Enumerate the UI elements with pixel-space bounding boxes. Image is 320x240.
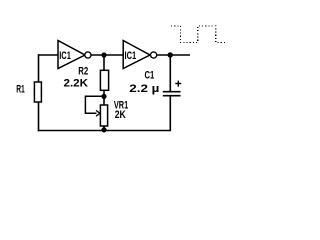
- output square-wave waveform (dotted): [171, 26, 226, 43]
- resistor R1 body: [34, 82, 41, 102]
- wire: VR1 wiper loop: [85, 96, 103, 113]
- svg-text:R1: R1: [16, 83, 25, 95]
- wire: node C to VR1 top: [103, 97, 105, 106]
- wire: node B down to C1 top plate: [169, 55, 171, 91]
- op-amp U1 inverter IC1 (first) triangle: [58, 41, 85, 69]
- node A junction dot: [101, 52, 106, 57]
- wire: R2 bottom to node C: [103, 90, 105, 96]
- capacitor C1 top plate: [163, 91, 181, 93]
- svg-text:IC1: IC1: [125, 50, 137, 62]
- wire: bubble1 to inverter2 input: [91, 54, 123, 56]
- svg-text:2.2K: 2.2K: [64, 78, 89, 90]
- wiper arrowhead: [96, 110, 100, 116]
- svg-text:C1: C1: [145, 70, 155, 82]
- inverter output bubble (first): [85, 52, 91, 58]
- node B junction dot: [168, 52, 173, 57]
- op-amp U2 inverter IC1 (second) triangle: [123, 41, 150, 69]
- potentiometer VR1 body: [100, 105, 107, 126]
- wire: bottom rail: [38, 130, 171, 132]
- inverter output bubble (second): [151, 52, 157, 58]
- wire: input of first inverter to left rail: [39, 54, 59, 56]
- node D junction dot: [101, 127, 106, 132]
- svg-text:R2: R2: [78, 65, 88, 77]
- capacitor C1 bottom plate: [163, 95, 181, 97]
- svg-text:IC1: IC1: [59, 50, 71, 62]
- wire: node A down to R2: [103, 55, 105, 70]
- svg-text:2K: 2K: [115, 109, 126, 121]
- wire: output stub: [157, 54, 190, 56]
- wire: left rail vertical lower (R1 bottom to bottom rail): [38, 102, 40, 131]
- wire: left rail vertical upper (to R1 top): [38, 54, 40, 82]
- node C junction dot: [101, 94, 106, 99]
- wire: VR1 bottom to bottom rail: [103, 126, 105, 131]
- svg-text:2.2 µ: 2.2 µ: [129, 83, 159, 95]
- wire: C1 bottom plate to bottom rail: [169, 96, 171, 131]
- polarity plus sign: [175, 81, 181, 87]
- resistor R2 body: [100, 70, 108, 90]
